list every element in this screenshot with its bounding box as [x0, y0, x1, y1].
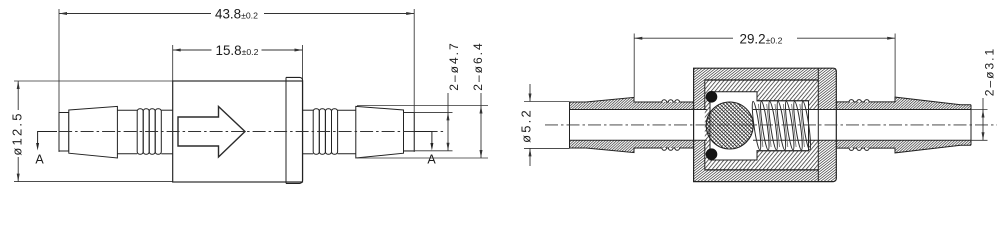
spring chamber step outline [757, 92, 809, 101]
extension line 43.8 left [58, 9, 60, 152]
extension lines dia 3.1 [971, 109, 988, 111]
o-ring bottom [706, 148, 718, 160]
hatched left tube top wall [570, 97, 694, 109]
hatched step above spring [757, 92, 809, 101]
valve body rectangle [173, 81, 303, 182]
o-ring top [706, 91, 718, 103]
extension line 15.8 left [172, 45, 174, 81]
extension lines dia 5.2 [524, 101, 570, 103]
left bore lines [570, 109, 707, 111]
left tube stub [59, 113, 69, 152]
hatched step below spring [757, 151, 809, 160]
hatched right tube top wall [836, 97, 971, 109]
insert left face upper [704, 80, 706, 110]
hatched body left wall upper [694, 80, 705, 110]
hatched body bottom band [694, 170, 819, 182]
svg-text:2–ø4.7: 2–ø4.7 [447, 41, 461, 90]
left barb cone [69, 106, 118, 158]
dimension line dia 12.5 [17, 81, 19, 110]
right shaft lines [303, 109, 314, 111]
hatched seat column [705, 92, 710, 160]
svg-text:2–ø6.4: 2–ø6.4 [471, 41, 485, 90]
section arrow A left [38, 132, 57, 145]
left rings (4 ridges) [137, 109, 143, 155]
hatched cap bottom [818, 140, 836, 181]
dimension line dia 5.2 with outside arrows [529, 84, 531, 102]
extension line 43.8 right [413, 9, 415, 152]
extension line 29.2 right [894, 34, 896, 98]
flow direction arrow [178, 107, 245, 158]
spring bore guide lines [753, 109, 809, 111]
hatched left tube bottom wall [570, 140, 694, 152]
svg-text:A: A [35, 153, 44, 167]
valve chamber pocket [710, 92, 809, 160]
left tube outline [570, 97, 694, 102]
centerline left view [38, 131, 445, 133]
hatched right tube bottom wall [836, 140, 971, 153]
hatched insert right wall lower [809, 140, 819, 160]
extension lines dia 12.5 [14, 80, 173, 82]
hatched cap top [818, 68, 836, 109]
extension lines dia 4.7 [404, 111, 453, 113]
dimension line dia 3.1 [982, 98, 984, 140]
svg-text:2–ø3.1: 2–ø3.1 [983, 47, 997, 96]
insert left face lower [704, 140, 706, 170]
spring coils [751, 101, 813, 150]
hatched body left wall lower [694, 140, 705, 170]
svg-text:ø12.5: ø12.5 [10, 111, 25, 155]
hatched body top band [694, 68, 819, 80]
extension line 29.2 left [633, 34, 635, 98]
right tube stub [404, 113, 415, 152]
dimension line dia 6.4 [480, 93, 482, 158]
right barb cone [356, 106, 404, 158]
right bore lines [809, 109, 972, 111]
cap seam [817, 68, 819, 181]
body cap (right end) [286, 77, 303, 183]
right tube end face [970, 105, 972, 146]
dimension line 15.8 [173, 49, 212, 51]
svg-text:ø5.2: ø5.2 [519, 108, 534, 143]
hatched insert bottom band [705, 160, 819, 170]
extension lines dia 6.4 [357, 105, 488, 107]
spring far-side coil stubs [758, 104, 804, 147]
insert seam top [705, 79, 819, 81]
left shaft lines [117, 109, 137, 111]
right rings (4 ridges) [313, 109, 319, 155]
left tube end face [569, 102, 571, 148]
dimension line 29.2 [634, 37, 733, 39]
hatched insert top band [705, 80, 819, 92]
centerline section view [545, 124, 997, 126]
extension line 15.8 right [302, 45, 304, 81]
dimension line dia 4.7 [447, 93, 449, 151]
hatched insert right wall upper [809, 92, 819, 110]
body outline [694, 68, 837, 181]
dimension line 43.8 [59, 13, 211, 15]
svg-text:A: A [427, 153, 436, 167]
body seam line [285, 77, 287, 183]
section arrow A right [414, 132, 432, 145]
right tube outline [836, 97, 971, 105]
insert seam bottom [705, 169, 819, 171]
ball (hatched) [706, 102, 753, 149]
